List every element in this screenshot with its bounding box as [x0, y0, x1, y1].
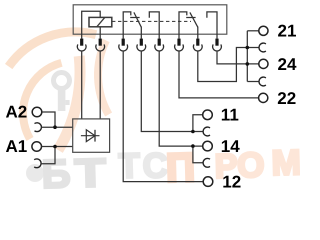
- contact 1 common to pin 4: [140, 27, 142, 39]
- diode cathode bar: [94, 130, 96, 142]
- input circuit box: [73, 119, 110, 152]
- socket cup 3: [119, 44, 128, 51]
- coil feed wire from pin 1: [82, 11, 101, 39]
- junction dot A1: [53, 145, 57, 149]
- watermark ring inner: [23, 63, 61, 139]
- relay pin 2: [99, 39, 102, 46]
- relay pin 6: [177, 39, 180, 46]
- contact 1 NC feed from pin 3: [123, 12, 131, 39]
- junction dot spine-21: [246, 46, 250, 50]
- wire pin1 cup to input box: [81, 51, 83, 119]
- wire pin6 to terminal 22: [179, 51, 258, 98]
- socket cup 6: [175, 44, 184, 51]
- terminal circle 21: [259, 26, 268, 35]
- contact 2 NC feed from pin 6: [179, 12, 187, 39]
- relay pin 4: [140, 39, 143, 46]
- watermark ring outer: [9, 32, 96, 67]
- coil rectangle: [89, 17, 112, 26]
- terminal socket 24: [259, 77, 266, 86]
- svg-text:П: П: [166, 146, 196, 191]
- relay pin 1: [80, 39, 83, 46]
- svg-text:A1: A1: [6, 137, 28, 156]
- wire A2 socket to input box: [41, 126, 72, 128]
- right spine 21-24: [246, 31, 248, 82]
- dashed mechanical link: [112, 20, 191, 22]
- wire A2 circle to junction: [42, 112, 55, 127]
- contact 2 arm: [190, 12, 198, 27]
- watermark gray blob: [26, 164, 44, 182]
- watermark key: [54, 73, 70, 112]
- svg-text:12: 12: [222, 173, 241, 192]
- svg-text:21: 21: [278, 22, 297, 41]
- svg-text:Б: Б: [41, 152, 71, 193]
- relay pin 8: [215, 39, 218, 46]
- terminal circle 24: [259, 59, 268, 68]
- socket cup 1: [77, 44, 86, 51]
- wire pin4 to terminal 11 socket: [141, 51, 203, 131]
- svg-text:24: 24: [278, 55, 297, 74]
- relay box: [73, 5, 227, 34]
- diode wire: [81, 135, 100, 137]
- socket cup 5: [155, 44, 164, 51]
- contact 2 common to pin 7: [197, 27, 199, 39]
- svg-text:Т: Т: [118, 146, 140, 186]
- coil slash: [97, 17, 105, 26]
- A1 socket: [34, 159, 41, 168]
- junction dot 11: [191, 130, 195, 134]
- A2 socket: [35, 123, 42, 132]
- watermark band E: [58, 56, 80, 150]
- socket cup 8: [213, 44, 222, 51]
- junction dot A2: [53, 125, 57, 129]
- watermark text gray: [41, 146, 168, 197]
- A2 terminal circle: [32, 107, 42, 117]
- svg-text:A2: A2: [6, 103, 28, 122]
- relay pin 7: [196, 39, 199, 46]
- terminal socket 21: [259, 43, 266, 52]
- diode triangle: [86, 130, 95, 142]
- contact 1 arm: [134, 12, 141, 27]
- terminal circle 12: [203, 177, 213, 187]
- terminal circle 22: [259, 93, 268, 102]
- contact 2 NC tick: [186, 17, 195, 19]
- socket cup 2: [96, 44, 105, 51]
- A1 terminal circle: [32, 142, 42, 152]
- terminal socket 14: [203, 158, 210, 167]
- terminal socket 11: [203, 127, 210, 136]
- socket cup 4: [137, 44, 146, 51]
- junction dot 14: [191, 144, 195, 148]
- watermark ring arc: [98, 40, 109, 114]
- wire pin8 to terminal 24: [217, 51, 259, 64]
- terminal circle 14: [203, 141, 213, 151]
- svg-text:М: М: [271, 143, 300, 183]
- wire pin5 to terminal 14: [159, 51, 202, 146]
- wire 11 circle bracket: [193, 115, 203, 132]
- wire 21 circle to spine: [247, 30, 258, 32]
- junction dot spine-24: [246, 62, 250, 66]
- socket cup 7: [193, 44, 202, 51]
- relay pin 5: [158, 39, 161, 46]
- wire 14 socket bracket: [193, 146, 203, 163]
- terminal circle 11: [203, 110, 213, 120]
- wire pin2 cup to input box: [99, 51, 101, 119]
- svg-text:С: С: [142, 146, 168, 186]
- wire pin7 to terminal 21 socket: [198, 48, 259, 82]
- watermark text orange: [166, 143, 302, 191]
- coil return wire to pin 2: [99, 27, 101, 39]
- svg-text:14: 14: [221, 137, 240, 156]
- wire pin3 to terminal 12: [123, 51, 203, 181]
- svg-text:Т: Т: [74, 151, 106, 193]
- svg-text:22: 22: [277, 89, 296, 108]
- contact 2 NO feed from pin 8: [207, 12, 217, 39]
- relay pin 3: [122, 39, 125, 46]
- wire 24 socket to spine: [247, 81, 259, 83]
- contact 1 NC tick: [130, 17, 139, 19]
- svg-text:11: 11: [221, 106, 239, 125]
- contact 1 NO feed from pin 5: [149, 12, 159, 39]
- wire A1 circle to input box: [42, 146, 73, 148]
- wire A1 socket to junction: [41, 147, 55, 164]
